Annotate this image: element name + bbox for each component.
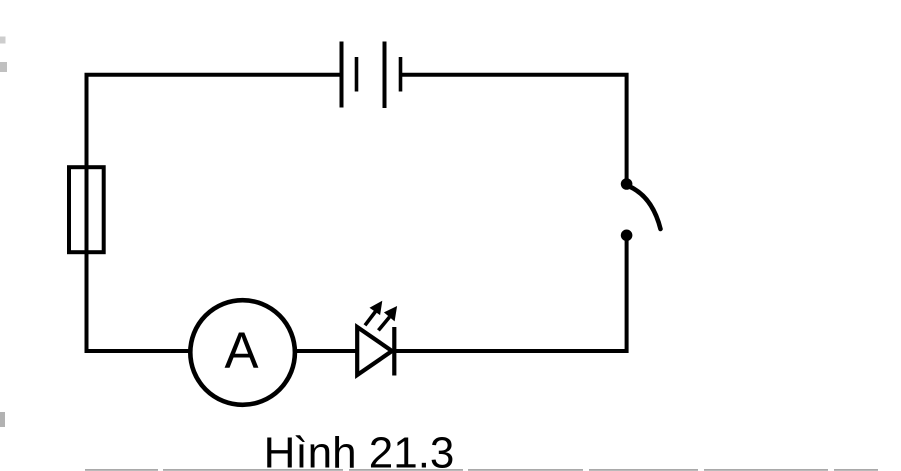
faint cropped character at left edge (0, 412, 5, 427)
LED triangle (anode) (357, 327, 392, 375)
switch bottom contact dot (621, 230, 633, 242)
wire top-left loop: battery left plate to top-left corner, down left side, to ammeter (87, 75, 342, 351)
LED emission arrow 1 shaft (365, 312, 376, 326)
switch lever arc (open) (630, 187, 661, 230)
battery cell 1 long plate (340, 42, 344, 108)
wire bottom-right: switch bottom dot down to corner, left to LED cathode bar (395, 235, 627, 351)
LED emission arrow 2 head (384, 306, 397, 321)
battery cell 2 long plate (383, 42, 387, 109)
wire between ammeter and LED (295, 349, 358, 353)
switch top contact dot (621, 178, 633, 190)
LED emission arrow 1 head (370, 301, 383, 315)
ammeter circle A1 (190, 300, 295, 405)
svg-text:Hình 21.3: Hình 21.3 (264, 429, 455, 471)
fuse/resistor rectangle on left wire (69, 167, 104, 252)
wire top-right: battery right plate to top-right corner, down to switch top dot (400, 75, 627, 184)
LED emission arrow 2 shaft (378, 317, 389, 330)
faint cropped text line at bottom edge (85, 469, 878, 471)
faint cropped marks at top-left edge (0, 37, 6, 44)
LED cathode bar (392, 327, 396, 376)
battery cell 1 short plate (355, 57, 359, 92)
battery cell 2 short plate (399, 57, 403, 92)
svg-text:A: A (224, 322, 258, 379)
